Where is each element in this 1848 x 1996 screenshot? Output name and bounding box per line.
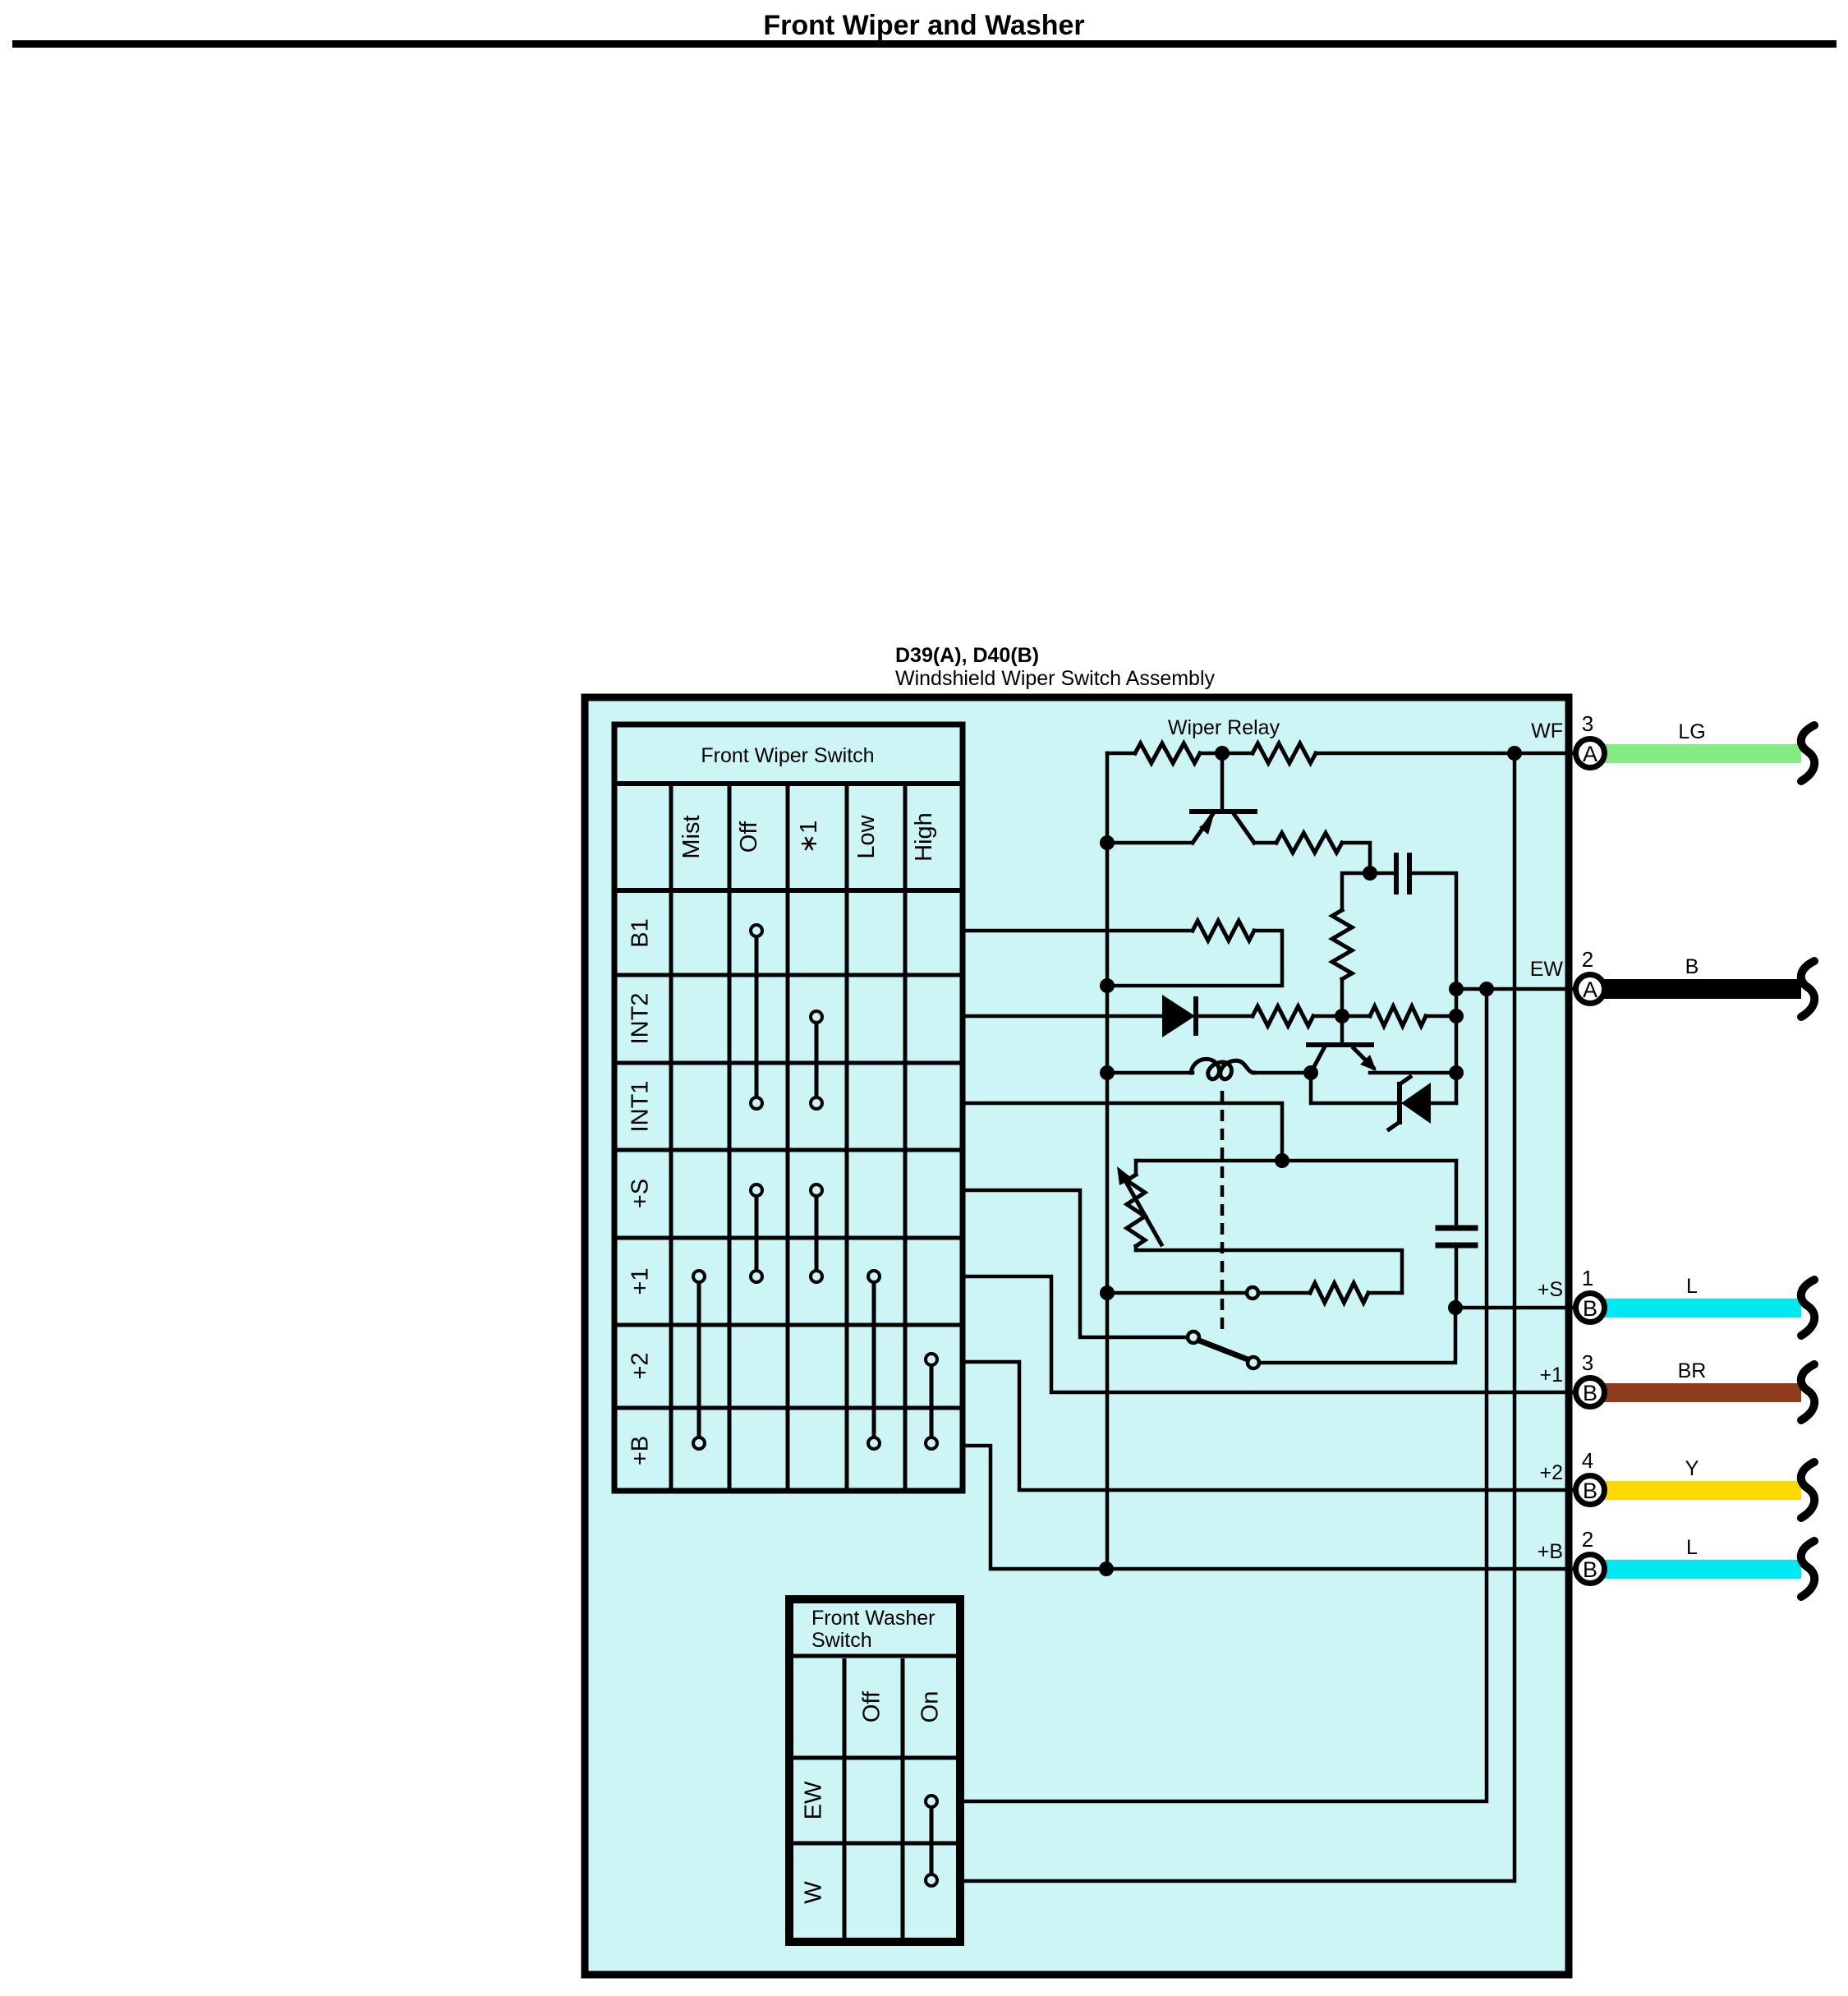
wire contact to resistor R8 <box>1258 1291 1310 1295</box>
svg-text:+S: +S <box>1538 1278 1563 1301</box>
wire Q2 emitter to right rail <box>1370 1071 1456 1075</box>
junction dot: WF node <box>1507 746 1522 761</box>
svg-text:D39(A), D40(B): D39(A), D40(B) <box>895 644 1039 667</box>
wire: VR bottom line <box>1136 1250 1402 1293</box>
column divider Off/*1 <box>786 784 790 1491</box>
capacitor C1 plates <box>1394 855 1399 892</box>
terminal ring WF pin 3 connector A <box>1576 739 1605 768</box>
variable resistor arrow <box>1123 1176 1161 1244</box>
svg-text:B: B <box>1583 1557 1597 1582</box>
svg-text:Wiper Relay: Wiper Relay <box>1168 716 1280 739</box>
terminal ring +2 pin 4 connector B <box>1576 1476 1605 1505</box>
zener diode D2 <box>1401 1083 1431 1124</box>
relay contact (upper, open circle) <box>1247 1287 1258 1299</box>
wire R3 to node C1A <box>1342 843 1370 873</box>
relay switch pivot contact <box>1188 1331 1199 1343</box>
wire: inductor line from left rail <box>1107 1071 1193 1075</box>
resistor R1 <box>1135 743 1200 763</box>
junction dot: left rail / R5 return <box>1100 978 1115 993</box>
svg-text:+2: +2 <box>627 1352 654 1379</box>
svg-text:Front Washer: Front Washer <box>811 1607 935 1630</box>
washer header divider <box>785 1756 964 1760</box>
transistor Q1 collector <box>1234 815 1254 843</box>
svg-text:On: On <box>917 1691 944 1723</box>
wire: W rail from WF to washer switch W <box>964 753 1515 1881</box>
wire: right rail to capacitor C2 <box>1455 1161 1459 1226</box>
wire: +2 row to terminal <box>963 1362 1572 1490</box>
svg-text:Windshield Wiper Switch Assemb: Windshield Wiper Switch Assembly <box>895 667 1216 690</box>
contacts: High column +2-+B <box>926 1354 937 1449</box>
contacts: *1 column INT2-INT1 <box>811 1011 822 1109</box>
column divider Low/High <box>903 784 908 1491</box>
wire: variable resistor top line <box>1136 1159 1456 1163</box>
wire B to terminal EW <box>1604 979 1801 999</box>
wire R5 return to left rail <box>1107 931 1282 986</box>
wire C2 to +S node <box>1455 1248 1459 1308</box>
table header bottom divider <box>612 888 963 893</box>
resistor R7 <box>1370 1006 1426 1026</box>
contacts: Off column +S-+1 <box>751 1184 762 1282</box>
wire LG to terminal WF <box>1604 744 1801 763</box>
contacts: Low column +1-+B <box>868 1271 880 1449</box>
svg-text:Front Wiper and Washer: Front Wiper and Washer <box>763 10 1084 41</box>
switch position contacts: Off column B1-INT1 <box>751 925 762 1109</box>
VR arrowhead <box>1117 1166 1133 1185</box>
transistor Q2 emitter <box>1354 1048 1373 1068</box>
svg-text:B: B <box>1583 1296 1597 1321</box>
resistor R8 <box>1310 1283 1368 1303</box>
junction dot: left rail / +B line <box>1099 1561 1114 1576</box>
wire R2 to WF terminal <box>1316 752 1572 756</box>
terminal ring +B pin 2 connector B <box>1576 1555 1605 1584</box>
svg-text:BR: BR <box>1678 1359 1707 1382</box>
svg-text:Switch: Switch <box>811 1629 872 1652</box>
wire L to terminal +B <box>1604 1560 1801 1579</box>
terminal ring +1 pin 3 connector B <box>1576 1378 1605 1407</box>
relay switch lower contact <box>1248 1357 1259 1368</box>
row divider +1/+2 <box>612 1323 963 1327</box>
washer title divider <box>785 1654 964 1658</box>
row divider +S/+1 <box>612 1236 963 1240</box>
svg-text:Low: Low <box>853 814 880 858</box>
column divider Mist/Off <box>728 784 732 1491</box>
wire Y to terminal +2 <box>1604 1481 1801 1500</box>
wire: B1 row to resistor R5 <box>963 929 1193 933</box>
wire node C1A to capacitor C1 <box>1370 872 1396 876</box>
svg-text:2: 2 <box>1582 1527 1593 1552</box>
svg-text:EW: EW <box>801 1781 827 1819</box>
wire node C1A to resistor R4 <box>1342 873 1370 910</box>
svg-text:2: 2 <box>1582 947 1593 972</box>
wire: relay left rail <box>1106 753 1110 1569</box>
svg-text:INT1: INT1 <box>627 1081 654 1133</box>
relay armature dashed link <box>1221 1091 1225 1331</box>
transistor Q2 collector <box>1311 1048 1324 1073</box>
contacts: Mist column +1-+B <box>693 1271 705 1449</box>
wire: Q1 emitter to left rail <box>1107 841 1193 845</box>
svg-text:+S: +S <box>627 1179 654 1208</box>
junction dot: left rail / R8 line <box>1100 1285 1115 1300</box>
contacts: *1 column +S-+1 <box>811 1184 822 1282</box>
svg-text:3: 3 <box>1582 1350 1593 1375</box>
column divider *1/Low <box>845 784 849 1491</box>
svg-text:B: B <box>1583 1381 1597 1405</box>
wire: INT2 row to diode D1 <box>963 1014 1164 1019</box>
junction dot: node C1A <box>1363 866 1377 881</box>
wire: +1 row to terminal <box>963 1276 1572 1392</box>
junction dot: left rail / Q1 emitter <box>1100 835 1115 850</box>
terminal ring +S pin 1 connector B <box>1576 1294 1605 1322</box>
svg-text:+1: +1 <box>1539 1364 1563 1387</box>
wire R1 to R2 <box>1200 752 1253 756</box>
Front Washer Switch table outer box <box>789 1599 960 1942</box>
wire C1 to right rail <box>1409 873 1456 1103</box>
svg-text:+2: +2 <box>1539 1461 1563 1484</box>
washer row divider EW/W <box>785 1842 964 1846</box>
svg-text:Off: Off <box>859 1690 885 1722</box>
Windshield Wiper Switch Assembly box <box>585 697 1569 1975</box>
svg-text:EW: EW <box>1530 958 1564 981</box>
wire: EW node to terminal <box>1456 987 1572 991</box>
svg-text:W: W <box>801 1881 827 1904</box>
svg-text:L: L <box>1686 1536 1698 1559</box>
transistor Q2 base bar <box>1308 1042 1372 1047</box>
svg-text:∗1: ∗1 <box>796 821 822 853</box>
svg-text:A: A <box>1583 742 1597 766</box>
Q2 emitter arrowhead <box>1360 1055 1377 1071</box>
svg-text:Y: Y <box>1685 1457 1699 1480</box>
resistor R6 <box>1253 1006 1313 1026</box>
wire: +S node to terminal <box>1455 1306 1572 1310</box>
junction dot: right rail / Q2 emitter <box>1449 1065 1464 1080</box>
washer column divider Off/On <box>901 1658 905 1942</box>
svg-text:A: A <box>1583 977 1597 1002</box>
svg-text:WF: WF <box>1531 720 1563 743</box>
svg-text:B: B <box>1583 1479 1597 1503</box>
wire: +B row to terminal <box>963 1446 1572 1569</box>
junction dot: right rail / EW <box>1449 982 1464 996</box>
junction dot: right rail / R7 <box>1449 1009 1464 1023</box>
inductor L1 (relay coil) <box>1191 1059 1254 1078</box>
wire zener anode to right rail <box>1431 1101 1456 1106</box>
washer column divider labels/Off <box>843 1658 847 1942</box>
wire: EW rail to washer switch EW <box>964 989 1487 1801</box>
transistor Q1 base bar <box>1192 809 1255 814</box>
svg-text:L: L <box>1686 1275 1698 1298</box>
svg-text:+B: +B <box>627 1436 654 1465</box>
transistor Q1 base stem <box>1221 753 1225 809</box>
row divider INT1/+S <box>612 1148 963 1152</box>
junction dot: VR top line <box>1275 1153 1289 1168</box>
column divider labels/Mist <box>669 784 673 1491</box>
svg-text:3: 3 <box>1582 711 1593 736</box>
title underline rule <box>12 40 1837 48</box>
svg-text:Front Wiper Switch: Front Wiper Switch <box>701 744 874 767</box>
wire R7 to right rail <box>1426 1014 1456 1019</box>
wire: zener branch from collector node <box>1311 1073 1398 1103</box>
resistor R3 <box>1254 841 1276 845</box>
svg-text:B: B <box>1685 955 1699 978</box>
transistor Q1 emitter <box>1193 815 1212 843</box>
svg-text:INT2: INT2 <box>627 993 654 1045</box>
capacitor C2 plates <box>1438 1226 1475 1231</box>
svg-text:Off: Off <box>736 821 762 853</box>
junction dot: Q2 collector / coil <box>1303 1065 1318 1080</box>
diode D1 <box>1162 995 1195 1037</box>
relay switch blade <box>1199 1341 1248 1359</box>
junction dot: EW switch rail <box>1479 982 1494 996</box>
wire inductor to Q2 collector node <box>1253 1071 1311 1075</box>
wire R6 to node B2 <box>1313 1014 1370 1019</box>
junction dot: +S node <box>1448 1300 1463 1315</box>
wire lower contact to +S node <box>1259 1308 1455 1363</box>
transistor Q2 base stem <box>1340 1016 1345 1042</box>
junction dot: top rail / Q1 base <box>1215 746 1230 761</box>
row divider INT2/INT1 <box>612 1061 963 1065</box>
svg-text:1: 1 <box>1582 1266 1593 1290</box>
wire BR to terminal +1 <box>1604 1383 1801 1402</box>
wire: +S row to switch pivot <box>963 1190 1188 1337</box>
row divider +2/+B <box>612 1406 963 1410</box>
wire: R8 line from left rail <box>1107 1291 1247 1295</box>
svg-text:LG: LG <box>1678 720 1705 743</box>
wire D1 to resistor R6 <box>1198 1014 1253 1019</box>
resistor R4 (vertical) <box>1332 910 1352 979</box>
Q1 emitter arrowhead <box>1199 817 1213 835</box>
washer contacts: On column EW-W <box>926 1796 937 1886</box>
svg-text:B1: B1 <box>627 918 654 947</box>
wire R8 to VR bottom corner <box>1368 1291 1402 1295</box>
svg-text:4: 4 <box>1582 1448 1593 1473</box>
resistor R5 <box>1193 921 1254 941</box>
row divider B1/INT2 <box>612 973 963 977</box>
svg-text:Mist: Mist <box>678 815 705 858</box>
wire L to terminal +S <box>1604 1299 1801 1318</box>
variable resistor VR (wiper speed) <box>1134 1161 1138 1175</box>
svg-text:High: High <box>911 812 937 862</box>
svg-text:+B: +B <box>1538 1540 1563 1563</box>
junction dot: node B2 (R4/R6/R7/Q2 base) <box>1335 1009 1349 1023</box>
terminal ring EW pin 2 connector A <box>1576 975 1605 1004</box>
wire: INT1 row to node VR-top <box>963 1103 1282 1161</box>
table title divider <box>612 781 963 786</box>
wire: relay top rail y=917 <box>1107 752 1135 756</box>
junction dot: left rail / coil line <box>1100 1065 1115 1080</box>
Front Wiper Switch table outer box <box>614 724 963 1491</box>
resistor R2 <box>1253 743 1316 763</box>
wire R4 to node B2 <box>1340 979 1345 1016</box>
svg-text:+1: +1 <box>627 1267 654 1295</box>
